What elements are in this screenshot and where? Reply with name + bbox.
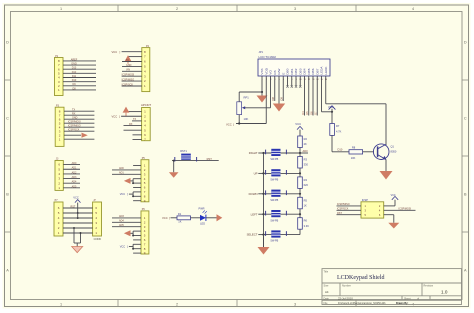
junction — [262, 172, 264, 174]
wire P1 pin 2 — [63, 85, 96, 87]
svg-text:D13: D13 — [72, 67, 77, 70]
svg-text:AREF: AREF — [71, 58, 78, 61]
svg-text:Drawn By:: Drawn By: — [396, 302, 409, 305]
svg-text:VCC: VCC — [295, 122, 301, 126]
svg-text:22-Jul-2010: 22-Jul-2010 — [338, 297, 353, 301]
svg-text:GND: GND — [72, 117, 78, 120]
wire LED to port — [206, 217, 217, 219]
junction — [80, 232, 82, 234]
LED light arrows — [203, 210, 205, 212]
svg-text:1: 1 — [60, 7, 62, 11]
svg-text:SW-PB: SW-PB — [270, 199, 278, 202]
svg-text:R3: R3 — [304, 158, 308, 162]
wire VCC rail — [236, 123, 266, 125]
junction — [262, 234, 264, 236]
wire ICSP pin 1 — [337, 205, 362, 207]
svg-text:Number: Number — [342, 285, 351, 288]
wire LCD pin5 RW — [278, 76, 280, 104]
svg-text:RX: RX — [129, 123, 133, 126]
svg-text:LED: LED — [200, 221, 205, 225]
wire LCD pin9 stub — [295, 76, 297, 87]
connector J3 — [55, 161, 63, 191]
junction — [299, 193, 301, 195]
wire P6 pin 8 — [133, 248, 141, 250]
junction — [262, 193, 264, 195]
svg-text:D12: D12 — [72, 71, 77, 74]
svg-text:B: B — [464, 193, 467, 197]
wire P5 pin 7 — [133, 191, 141, 193]
wire SW5 row — [264, 234, 301, 236]
wire P2 pin8 VCC — [122, 51, 142, 53]
svg-text:Title: Title — [324, 271, 329, 274]
RST1 button cap — [181, 154, 191, 160]
wire SW4 row — [264, 213, 301, 215]
svg-text:1: 1 — [60, 303, 62, 307]
wire P3 pin 5 — [64, 122, 94, 124]
resistor R4 — [298, 177, 303, 189]
wire P1 pin 1 — [63, 89, 96, 91]
wire P5 pin 1 — [133, 165, 141, 167]
wire P7-J7 row 2 — [63, 212, 93, 214]
ground at LCD VSS — [257, 96, 268, 103]
wire P6 pin 4 — [133, 230, 141, 232]
svg-text:ICSP/MISO: ICSP/MISO — [337, 203, 350, 206]
svg-text:AD2: AD2 — [72, 171, 77, 174]
svg-text:AD3: AD3 — [119, 215, 124, 218]
wire resistor top — [299, 214, 301, 218]
svg-text:AD0: AD0 — [72, 162, 77, 165]
connector P3 — [55, 107, 64, 146]
wire label to bus — [258, 172, 263, 174]
power port arrow right — [217, 214, 223, 221]
wire P6 pin 1 — [112, 217, 141, 219]
svg-text:VCC: VCC — [120, 245, 126, 249]
ground at LCD RW — [273, 104, 285, 112]
svg-text:1.0: 1.0 — [441, 290, 448, 295]
svg-text:D8: D8 — [271, 97, 275, 101]
wire to R7 — [331, 112, 333, 124]
svg-text:TX: TX — [72, 109, 75, 112]
power port stem — [127, 61, 129, 64]
svg-text:C: C — [464, 117, 467, 121]
wire RST1 to ground — [173, 161, 175, 173]
wire label to bus — [258, 152, 263, 154]
wire P7-J7 row 6 — [63, 232, 93, 234]
svg-text:Size: Size — [324, 285, 329, 288]
wire P3 pin 1 — [64, 138, 94, 140]
connector P7 — [54, 202, 63, 236]
svg-text:R5: R5 — [304, 198, 308, 202]
svg-text:LCD TC1602: LCD TC1602 — [259, 55, 277, 59]
border zone tick top — [117, 5, 119, 12]
wire resistor top — [299, 194, 301, 198]
svg-text:A: A — [6, 269, 9, 273]
svg-text:D11: D11 — [72, 75, 77, 78]
wire ICSP pin 5 — [337, 214, 362, 216]
wire VCC port stem — [331, 109, 333, 112]
svg-text:R1: R1 — [178, 212, 182, 216]
svg-text:4.7K: 4.7K — [336, 129, 342, 133]
svg-text:Q1: Q1 — [391, 145, 395, 149]
svg-text:SW-PB: SW-PB — [270, 219, 278, 222]
svg-text:10K: 10K — [351, 156, 356, 160]
wire SW3 row — [264, 193, 301, 195]
svg-text:CON6: CON6 — [94, 237, 102, 241]
svg-text:ICSP/MISO: ICSP/MISO — [122, 79, 135, 82]
wire LCD pin2 VDD — [265, 76, 267, 124]
wire SW1 row — [264, 152, 301, 154]
border zone tick bottom — [355, 300, 357, 307]
wire APCKIT pin6 — [133, 134, 142, 136]
svg-text:APCKIT: APCKIT — [141, 103, 151, 107]
border zone tick left — [5, 231, 11, 233]
wire wiper to LCD VO — [245, 107, 271, 109]
wire P2 pin 3 — [122, 75, 142, 77]
power port arrow at P6 — [124, 230, 131, 236]
wire ICSP pin6 — [384, 214, 394, 216]
svg-text:D: D — [464, 41, 467, 45]
junction — [132, 195, 134, 197]
potentiometer RP1 — [237, 102, 242, 115]
wire P3 pin2 — [64, 134, 81, 136]
RST1 pin posts — [174, 157, 176, 162]
svg-text:ICSP/MISO: ICSP/MISO — [68, 125, 81, 128]
svg-text:B: B — [6, 193, 9, 197]
power port arrow at P3 pin2 — [82, 133, 88, 138]
wire resistor bottom — [299, 229, 301, 234]
wire P5 VCC bracket — [132, 192, 134, 196]
wire label to bus — [258, 234, 263, 236]
wire LCD pin6 E — [282, 76, 284, 101]
wire LCD pin13 — [312, 76, 314, 116]
junction — [77, 212, 79, 214]
ground below keypad — [258, 247, 270, 255]
wire P2 pin 1 — [122, 85, 142, 87]
svg-text:D10: D10 — [72, 79, 77, 82]
no-connect mark — [291, 85, 293, 87]
wire P2 pin7 — [128, 56, 142, 58]
svg-text:RST: RST — [207, 157, 213, 161]
wire label to bus — [258, 193, 263, 195]
connector P1 — [55, 58, 64, 96]
connector P2 — [142, 48, 150, 92]
wire R7 to base node — [331, 135, 333, 151]
svg-text:VCC: VCC — [162, 216, 168, 220]
wire resistor bottom — [299, 168, 301, 173]
no-connect mark — [295, 85, 297, 87]
wire APCKIT pin2 — [121, 115, 142, 117]
svg-text:VCC: VCC — [112, 50, 118, 54]
svg-text:RX: RX — [72, 113, 76, 116]
wire LEDK to collector horizontal — [326, 103, 386, 105]
resistor R3 — [298, 157, 303, 169]
wire SW2 row — [264, 172, 301, 174]
svg-text:VCC: VCC — [120, 192, 126, 196]
svg-text:R8: R8 — [352, 146, 356, 150]
border zone tick left — [5, 155, 11, 157]
svg-text:SW-PB: SW-PB — [270, 240, 278, 243]
no-connect mark — [299, 85, 301, 87]
svg-text:ICSP/MOSI: ICSP/MOSI — [68, 121, 81, 124]
svg-text:RST: RST — [337, 212, 342, 215]
junction — [77, 217, 79, 219]
svg-text:GND: GND — [126, 64, 132, 67]
svg-text:Date: Date — [324, 298, 330, 301]
svg-text:D: D — [6, 41, 9, 45]
wire LCD pin14 — [316, 76, 318, 116]
svg-text:D6: D6 — [309, 111, 313, 115]
svg-text:VCC: VCC — [112, 114, 118, 118]
wire VCC to R1 — [171, 217, 178, 219]
wire LCD pin8 stub — [291, 76, 293, 87]
svg-text:AD1: AD1 — [72, 167, 77, 170]
wire APCKIT pin1 — [126, 111, 142, 113]
wire to arrow — [131, 180, 134, 182]
ground at ICSP — [388, 223, 399, 229]
junction — [173, 160, 175, 162]
wire P1 pin 4 — [63, 77, 96, 79]
wire P6 bracket — [132, 231, 134, 235]
transistor Q1 — [373, 144, 389, 160]
svg-text:8050: 8050 — [391, 150, 397, 154]
wire to arrow — [131, 232, 134, 234]
LED D1 PWR — [200, 215, 206, 221]
wire P3 pin 3 — [64, 130, 94, 132]
power port VCC arrow at P2 pin7 — [125, 55, 132, 61]
wire to VCC label — [129, 193, 133, 195]
border zone tick bottom — [117, 300, 119, 307]
border zone tick top — [236, 5, 238, 12]
wire P6 pin 3 — [112, 226, 141, 228]
no-connect mark — [286, 85, 288, 87]
resistor R1 — [177, 216, 191, 220]
border zone tick top — [355, 5, 357, 12]
svg-text:UP: UP — [254, 172, 258, 176]
svg-text:ICSP/MOSI: ICSP/MOSI — [399, 207, 412, 210]
wire J3 pin 2 — [63, 182, 80, 184]
Q1 emitter arrow — [383, 156, 387, 160]
svg-text:ICSP/SCK: ICSP/SCK — [337, 208, 349, 211]
wire LCD pin1 VSS — [261, 76, 263, 92]
wire LCD pin15 LEDA — [321, 76, 323, 112]
svg-text:SELECT: SELECT — [247, 233, 258, 237]
wire LEDA horizontal — [322, 111, 333, 113]
wire APCKIT pin4 — [124, 125, 142, 127]
svg-text:D:\share\2-LCD\arduino\arduino: D:\share\2-LCD\arduino\arduino_NO250.ddb — [338, 302, 386, 305]
svg-text:1K: 1K — [304, 204, 307, 208]
wire P2 pin 2 — [122, 80, 142, 82]
power port VCC arrowhead — [75, 200, 81, 203]
wire cluster gnd right drop — [80, 233, 82, 243]
svg-text:3: 3 — [294, 303, 296, 307]
svg-text:3.3K: 3.3K — [304, 224, 310, 228]
wire P3 pin 4 — [64, 126, 94, 128]
svg-text:PWR: PWR — [199, 206, 205, 210]
wire R2 to node — [299, 148, 301, 154]
svg-text:LEDK: LEDK — [324, 66, 328, 75]
svg-text:DOWN: DOWN — [249, 192, 258, 196]
svg-text:ICSP/SCK: ICSP/SCK — [122, 83, 134, 86]
wire ICSP pin 3 — [337, 209, 362, 211]
svg-text:AD5: AD5 — [119, 224, 124, 227]
svg-text:RIGHT: RIGHT — [249, 151, 258, 155]
wire VCC to R2 — [299, 130, 301, 136]
svg-text:ICSP/MOSI: ICSP/MOSI — [122, 74, 135, 77]
svg-text:2: 2 — [176, 303, 178, 307]
wire cluster gnd left drop — [73, 228, 75, 243]
svg-text:R7: R7 — [336, 124, 340, 128]
svg-text:VIN: VIN — [126, 69, 130, 72]
junction — [299, 152, 301, 154]
wire P2 pin 4 — [122, 70, 142, 72]
wire P5 pin 8 — [133, 195, 141, 197]
wire LCD pin12 — [308, 76, 310, 116]
wire P5 pin 6 — [133, 187, 141, 189]
svg-text:D4: D4 — [301, 111, 305, 115]
svg-text:ICSP/SCK: ICSP/SCK — [68, 129, 80, 132]
wire P7-J7 row 1 — [63, 207, 93, 209]
svg-text:RST: RST — [71, 205, 76, 208]
svg-text:Sheet: Sheet — [404, 298, 411, 301]
resistor R5 — [298, 197, 303, 209]
wire LCD pin10 stub — [299, 76, 301, 87]
wire P7-J7 row 3 — [63, 217, 93, 219]
svg-text:R6: R6 — [304, 219, 308, 223]
wire J3 pin 4 — [63, 173, 80, 175]
ground below Q1 — [380, 171, 393, 180]
wire P3 pin 6 — [64, 118, 94, 120]
wire P2 pin 5 — [122, 65, 142, 67]
wire bus to ground — [263, 235, 265, 247]
wire APCKIT pin7 — [133, 139, 142, 141]
wire RP1 top horizontal — [239, 91, 262, 93]
border zone tick right — [462, 231, 469, 233]
border zone tick bottom — [236, 300, 238, 307]
connector J7 CON6 — [93, 202, 102, 236]
keypad left bus — [263, 153, 265, 247]
power port stem — [125, 113, 127, 117]
svg-text:AD3: AD3 — [72, 176, 77, 179]
svg-text:3: 3 — [294, 7, 296, 11]
wire VCC stem — [77, 203, 79, 213]
wire to ground — [261, 92, 263, 96]
wire P3 pin 8 — [64, 110, 94, 112]
wire P6 pin 5 — [133, 235, 141, 237]
wire P5 pin 3 — [112, 173, 141, 175]
title block — [322, 269, 462, 305]
border zone tick right — [462, 155, 469, 157]
svg-text:D5: D5 — [305, 111, 309, 115]
wire label to bus — [258, 213, 263, 215]
svg-text:D7: D7 — [314, 111, 318, 115]
svg-text:LEFT: LEFT — [251, 212, 258, 216]
border zone tick right — [462, 79, 469, 81]
junction — [262, 213, 264, 215]
wire P5 pin 2 — [112, 169, 141, 171]
wire J3 pin 3 — [63, 178, 80, 180]
wire resistor top — [299, 173, 301, 177]
svg-text:RP1: RP1 — [244, 96, 250, 100]
wire emitter to ground — [385, 160, 387, 171]
wire cluster gnd bottom — [74, 242, 81, 244]
svg-text:620: 620 — [304, 183, 309, 187]
wire P6 pin 9 — [133, 252, 141, 254]
wire P6 pin 7 — [133, 243, 141, 245]
power port VCC arrow at APCKIT pin1 — [123, 107, 130, 113]
svg-text:D9: D9 — [280, 97, 284, 101]
svg-text:AD0: AD0 — [119, 167, 124, 170]
junction — [299, 213, 301, 215]
wire P1 pin 7 — [63, 64, 96, 66]
svg-text:RST1: RST1 — [180, 149, 187, 153]
ground below RST1 — [169, 172, 179, 177]
junction — [331, 111, 333, 113]
wire ICSP pin2 up — [394, 200, 396, 206]
svg-text:SW-PB: SW-PB — [270, 179, 278, 182]
svg-text:1K: 1K — [178, 220, 181, 224]
wire resistor bottom — [299, 188, 301, 193]
connector P5 — [141, 160, 149, 202]
connector P6 — [141, 211, 149, 254]
wire P2 pin 6 — [122, 61, 142, 63]
svg-text:File: File — [324, 302, 329, 305]
wire RP1 top — [238, 92, 240, 102]
wire to VCC label — [129, 246, 133, 248]
wire LCD pin3 VO — [270, 76, 272, 108]
svg-text:GND: GND — [71, 62, 77, 65]
svg-text:AD0: AD0 — [303, 149, 309, 153]
junction — [238, 122, 240, 124]
svg-text:C: C — [6, 117, 9, 121]
svg-text:A: A — [464, 269, 467, 273]
wire RST1 row — [172, 160, 219, 162]
svg-text:2K: 2K — [304, 142, 307, 146]
ground below P7 cluster — [72, 247, 83, 253]
LCD body box — [258, 59, 330, 76]
wire LCD pin16 LEDK — [325, 76, 327, 104]
wire R1 to LED — [191, 217, 201, 219]
wire APCKIT pin3 — [132, 120, 142, 122]
wire P7-J7 row 5 — [63, 227, 93, 229]
wire VCC stem 2 — [77, 213, 79, 218]
wire base node horizontal — [332, 151, 349, 153]
wire P1 pin 6 — [63, 68, 96, 70]
wire collector vertical — [385, 104, 387, 145]
svg-text:R2: R2 — [304, 137, 308, 141]
wire P5 pin 9 — [133, 200, 141, 202]
svg-text:JP1: JP1 — [259, 50, 264, 54]
wire P7-J7 row 4 — [63, 222, 93, 224]
wire AD0 stub — [300, 152, 308, 154]
svg-text:of: of — [417, 298, 419, 301]
svg-text:TX: TX — [133, 118, 136, 121]
wire P3 pin 7 — [64, 114, 94, 116]
svg-text:D10: D10 — [338, 148, 343, 152]
wire J3 pin 5 — [63, 168, 80, 170]
wire ICSP pin4 — [384, 209, 416, 211]
resistor R6 — [298, 218, 303, 230]
svg-text:LCDKeypad Shield: LCDKeypad Shield — [337, 275, 385, 281]
svg-text:A4: A4 — [325, 290, 329, 294]
wire P6 pin 2 — [112, 221, 141, 223]
wire J3 pin 1 — [63, 187, 80, 189]
wire P5 pin 4 — [133, 178, 141, 180]
svg-text:SW-PB: SW-PB — [270, 158, 278, 161]
wire P1 pin 3 — [63, 81, 96, 83]
junction — [132, 182, 134, 184]
wire R8 to Q1 base — [363, 151, 374, 153]
wire RP1 bottom — [238, 115, 240, 124]
